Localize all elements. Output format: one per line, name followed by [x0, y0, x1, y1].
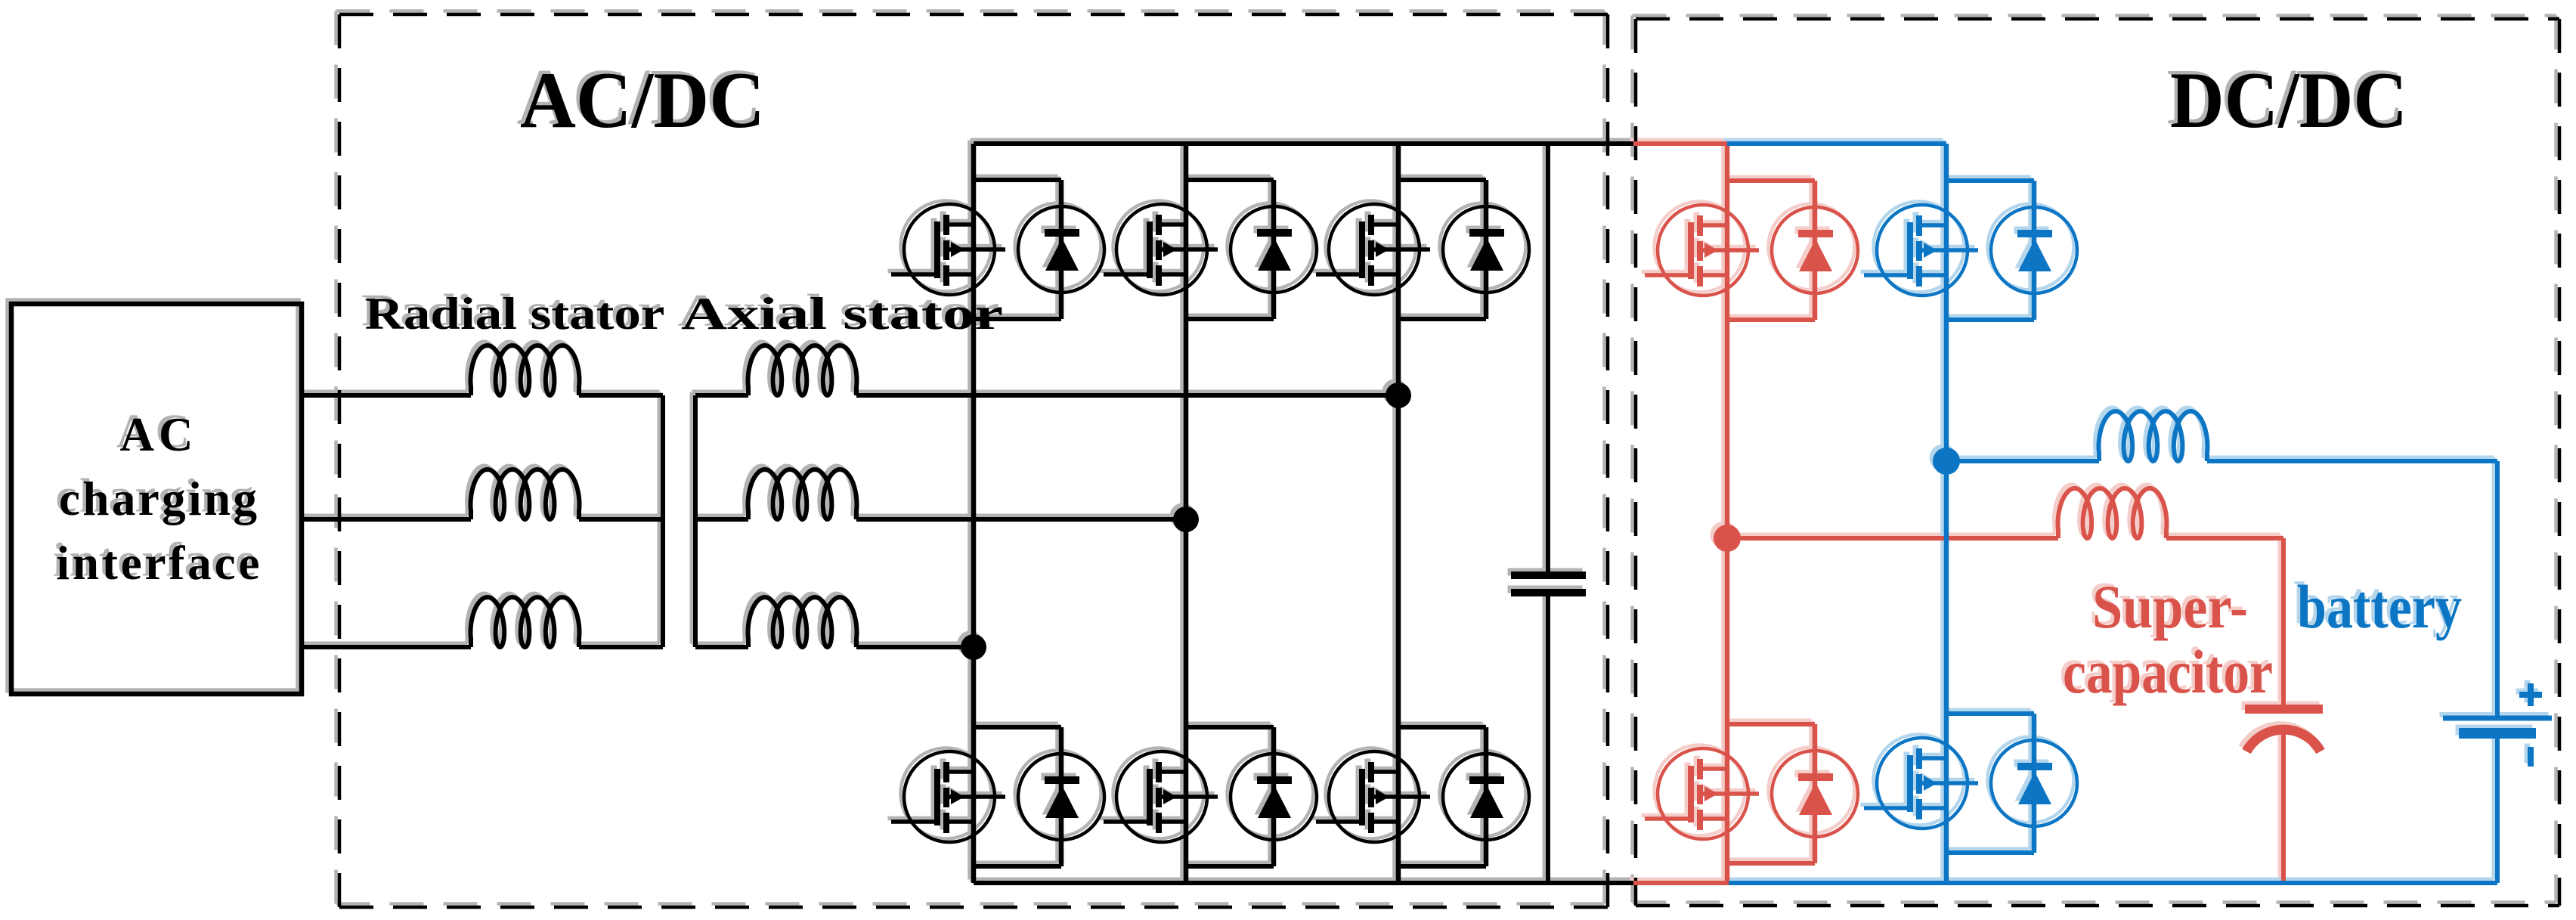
wire radial stator neutral bus — [661, 395, 665, 647]
svg-text:capacitor: capacitor — [2063, 637, 2273, 706]
diode D4 (antiparallel) — [1018, 754, 1104, 840]
wire blue leg vertical — [1944, 144, 1949, 883]
inductor radial stator winding L1r — [471, 345, 580, 395]
wire positive rail blue segment — [1727, 141, 1946, 146]
wire pair Q9 connection bars — [1946, 181, 2034, 320]
transistor MOSFET Q9 (blue top) — [1864, 205, 1978, 296]
wire red inductor to supercap — [2166, 536, 2283, 541]
transistor MOSFET Q1 — [891, 204, 1005, 295]
wire red midpoint to supercap inductor — [1727, 536, 2058, 541]
wire blue vertical to battery — [2495, 461, 2500, 716]
wire phase 3 axial coil to bridge leg 1 — [856, 645, 974, 649]
svg-text:Super-: Super- — [2092, 572, 2248, 641]
wire red vertical to supercap — [2281, 538, 2286, 706]
wire pair Q8 connection bars — [1727, 724, 1815, 863]
wire pair Q4 connection bars — [974, 727, 1061, 866]
battery plus terminal label — [2519, 683, 2542, 706]
node phase C junction dot — [961, 634, 986, 660]
transistor MOSFET Q5 — [1104, 751, 1218, 842]
capacitor DC-link C1 — [1511, 144, 1586, 883]
svg-text:DC/DC: DC/DC — [2170, 56, 2407, 144]
inductor battery filter (blue) — [2099, 411, 2208, 461]
wire axial stator neutral bus — [693, 395, 698, 647]
AC charging interface box — [11, 304, 302, 694]
wire phase 1 from AC box to radial coil — [302, 393, 471, 398]
wire pair Q5 connection bars — [1186, 727, 1274, 866]
wire phase 3 from AC box to radial coil — [302, 645, 471, 649]
wire phase 2 axial bus to axial coil — [695, 517, 748, 522]
wire phase 1 axial coil to bridge leg 3 — [856, 393, 1398, 398]
wire DC bus positive rail (black) — [974, 141, 1633, 146]
diode D8 (antiparallel, red bottom) — [1772, 751, 1858, 837]
transistor MOSFET Q2 — [1104, 204, 1218, 295]
wire phase 3 axial bus to axial coil — [695, 645, 748, 649]
inductor axial stator winding L3a — [748, 597, 857, 647]
inductor radial stator winding L2r — [471, 469, 580, 519]
inductor axial stator winding L2a — [748, 469, 857, 519]
node phase A junction dot — [1386, 383, 1411, 408]
wire phase 2 axial coil to bridge leg 2 — [856, 517, 1186, 522]
node blue midpoint junction dot — [1933, 448, 1960, 475]
transistor MOSFET Q3 — [1316, 204, 1430, 295]
wire red leg vertical — [1725, 144, 1730, 883]
wire phase 1 axial bus to axial coil — [695, 393, 748, 398]
node phase B junction dot — [1173, 506, 1199, 532]
wire pair Q6 connection bars — [1398, 727, 1486, 866]
diode D10 (antiparallel, blue bottom) — [1991, 740, 2077, 826]
wire phase 2 radial coil to radial bus — [579, 517, 663, 522]
svg-text:Axial stator: Axial stator — [681, 289, 1003, 339]
wire positive rail red segment — [1633, 141, 1727, 146]
diode D3 (antiparallel) — [1443, 206, 1529, 293]
diode D6 (antiparallel) — [1443, 754, 1529, 840]
battery minus terminal label — [2528, 747, 2534, 767]
wire negative rail red segment — [1633, 881, 1729, 885]
wire phase 3 radial coil to radial bus — [579, 645, 663, 649]
wire phase 2 from AC box to radial coil — [302, 517, 471, 522]
wire blue inductor to battery corner — [2207, 459, 2497, 463]
inductor radial stator winding L3r — [471, 597, 580, 647]
wire bridge leg 1 vertical — [971, 144, 977, 883]
svg-text:AC/DC: AC/DC — [520, 56, 765, 144]
transistor MOSFET Q7 (red top) — [1645, 205, 1759, 296]
wire pair Q10 connection bars — [1946, 714, 2034, 853]
svg-text:Radial stator: Radial stator — [365, 289, 665, 339]
wire DC bus negative rail (black) — [974, 881, 1633, 885]
svg-text:AC: AC — [120, 408, 194, 461]
diode D5 (antiparallel) — [1231, 754, 1317, 840]
svg-text:interface: interface — [57, 537, 260, 590]
svg-text:battery: battery — [2297, 572, 2462, 641]
wire pair Q1 connection bars — [974, 180, 1061, 319]
diode D2 (antiparallel) — [1231, 206, 1317, 293]
transistor MOSFET Q10 (blue bottom) — [1864, 738, 1978, 829]
battery symbol — [2443, 718, 2552, 883]
inductor axial stator winding L1a — [748, 345, 857, 395]
transistor MOSFET Q8 (red bottom) — [1645, 748, 1759, 839]
diode D1 (antiparallel) — [1018, 206, 1104, 293]
inductor supercapacitor filter (red) — [2058, 488, 2167, 538]
transistor MOSFET Q6 — [1316, 751, 1430, 842]
wire negative rail blue segment — [1729, 881, 2497, 885]
wire phase 1 radial coil to radial bus — [579, 393, 663, 398]
wire bridge leg 2 vertical — [1184, 144, 1189, 883]
DC/DC converter dashed boundary box — [1636, 19, 2559, 906]
AC/DC converter dashed boundary box — [339, 14, 1608, 907]
wire pair Q3 connection bars — [1398, 180, 1486, 319]
node red midpoint junction dot — [1714, 525, 1741, 552]
wire blue midpoint to battery inductor — [1946, 459, 2099, 463]
diode D7 (antiparallel, red top) — [1772, 207, 1858, 293]
capacitor supercapacitor (red polarized) — [2245, 709, 2323, 883]
svg-text:charging: charging — [59, 472, 257, 525]
transistor MOSFET Q4 — [891, 751, 1005, 842]
diode D9 (antiparallel, blue top) — [1991, 207, 2077, 293]
wire pair Q7 connection bars — [1727, 181, 1815, 320]
label AC charging interface — [57, 408, 260, 590]
wire pair Q2 connection bars — [1186, 180, 1274, 319]
wire bridge leg 3 vertical — [1396, 144, 1401, 883]
